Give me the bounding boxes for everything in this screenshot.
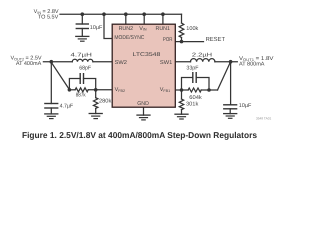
wire SW1 to L1 — [175, 61, 190, 63]
wire L2 to SW2 — [93, 61, 112, 63]
wire 100k top lead — [181, 14, 183, 23]
node RUN2 junction — [124, 12, 128, 16]
svg-text:280k: 280k — [99, 98, 112, 104]
inductor L1 2.2uH — [191, 59, 215, 62]
capacitor C3 68pF — [79, 74, 81, 84]
svg-text:4.7µF: 4.7µF — [60, 103, 74, 109]
ground 301k — [175, 113, 188, 115]
svg-text:SW1: SW1 — [160, 60, 172, 66]
ground COUT1 — [224, 113, 237, 115]
wire CIN stub — [81, 14, 83, 24]
wire diagonal FB1 to VOUT1 — [218, 62, 231, 90]
resistor R2 604k — [188, 88, 201, 92]
wire VOUT2 to L2 — [43, 61, 72, 63]
wire FB2 row right — [88, 89, 112, 91]
svg-text:RUN2: RUN2 — [119, 26, 134, 32]
wire 604k right — [201, 89, 217, 91]
svg-text:10µF: 10µF — [239, 103, 252, 109]
wire VOUT1 drop to COUT1 — [230, 62, 232, 105]
wire diagonal VOUT2 to FB2 — [51, 62, 69, 89]
svg-text:3548 TA01: 3548 TA01 — [256, 117, 272, 121]
svg-text:RESET: RESET — [206, 36, 226, 43]
wire 68pF left riser — [69, 79, 80, 90]
wire 100k bottom lead — [181, 38, 183, 42]
node FB2 right junction — [94, 88, 98, 92]
node FB2 left junction — [68, 88, 72, 92]
svg-text:MODE/SYNC: MODE/SYNC — [114, 35, 144, 41]
node VOUT2 junction — [50, 60, 54, 64]
node 604k right junction — [207, 88, 211, 92]
svg-text:4.7µH: 4.7µH — [71, 52, 92, 58]
node MODE/SYNC junction — [102, 12, 106, 16]
svg-text:RUN1: RUN1 — [156, 26, 171, 32]
wire VIN pin stub — [143, 14, 145, 24]
wire 68pF right riser — [84, 79, 96, 90]
svg-text:POR: POR — [163, 37, 173, 43]
svg-text:68pF: 68pF — [79, 65, 91, 71]
wire VOUT2 drop to COUT2 — [50, 62, 52, 104]
wire RUN1 stub — [162, 14, 164, 24]
resistor R6 301k — [179, 99, 183, 110]
svg-text:604k: 604k — [189, 95, 202, 101]
svg-text:2.2µH: 2.2µH — [192, 52, 212, 58]
wire VIN rail — [60, 13, 182, 15]
svg-text:301k: 301k — [186, 102, 199, 108]
inductor L2 4.7uH — [72, 59, 93, 61]
wire VFB1 row — [175, 89, 188, 91]
ground COUT2 — [45, 113, 58, 115]
wire POR to RESET — [175, 41, 203, 43]
node VOUT1 junction — [229, 60, 233, 64]
wire 280k top lead — [95, 90, 97, 98]
wire 301k top lead — [181, 90, 183, 99]
capacitor C6 10uF output — [224, 104, 237, 106]
wire 33pF right riser — [196, 78, 209, 91]
resistor R5 280k — [94, 98, 98, 109]
svg-text:100k: 100k — [186, 26, 198, 32]
svg-text:Figure 1. 2.5V/1.8V at 400mA/8: Figure 1. 2.5V/1.8V at 400mA/800mA Step-… — [22, 130, 257, 140]
svg-text:887k: 887k — [76, 92, 86, 98]
ground input cap — [76, 35, 89, 37]
node VFB1 junction — [180, 88, 184, 92]
ground chip GND — [137, 114, 150, 116]
wire RUN2 stub — [125, 14, 127, 24]
wire GND pin stub — [143, 107, 145, 115]
svg-text:33pF: 33pF — [186, 65, 199, 71]
wire 301k bottom lead — [181, 110, 183, 115]
capacitor C4 33pF — [192, 73, 194, 83]
op-amp U1 LTC3548 body — [112, 24, 175, 107]
node VIN pin junction — [142, 12, 146, 16]
svg-text:TO 5.5V: TO 5.5V — [38, 15, 59, 21]
resistor R3 887k — [75, 88, 88, 92]
node RUN1 junction — [161, 12, 165, 16]
svg-text:GND: GND — [137, 101, 149, 107]
resistor R4 100k — [179, 23, 184, 38]
wire 280k bottom lead — [95, 108, 97, 113]
wire L1 to VOUT1 — [215, 61, 237, 63]
svg-text:LTC3548: LTC3548 — [133, 52, 161, 58]
node VIN-CIN junction — [81, 12, 85, 16]
svg-text:10µF: 10µF — [90, 25, 103, 31]
svg-text:AT 400mA: AT 400mA — [16, 61, 42, 67]
svg-text:SW2: SW2 — [115, 60, 127, 66]
svg-text:AT 800mA: AT 800mA — [239, 62, 265, 68]
node POR junction — [180, 40, 184, 44]
wire FB2 row left — [69, 89, 75, 91]
capacitor C1 10uF input — [76, 23, 88, 25]
wire 33pF left riser — [182, 78, 193, 91]
ground 280k — [89, 113, 102, 115]
capacitor C5 4.7uF — [45, 103, 58, 105]
wire MODE/SYNC riser — [104, 14, 112, 38]
